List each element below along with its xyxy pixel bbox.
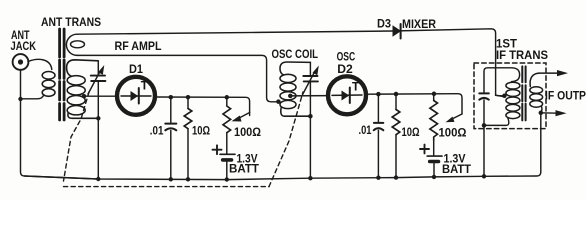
svg-text:D2: D2 (337, 62, 353, 76)
svg-text:.01: .01 (359, 123, 372, 137)
svg-text:IF OUTP: IF OUTP (545, 89, 586, 103)
svg-text:100Ω: 100Ω (439, 126, 467, 140)
svg-text:100Ω: 100Ω (234, 125, 261, 139)
svg-text:BATT: BATT (442, 162, 472, 176)
svg-text:10Ω: 10Ω (192, 124, 210, 138)
svg-text:.01: .01 (150, 124, 164, 138)
svg-text:T: T (141, 79, 149, 93)
svg-text:D1: D1 (129, 62, 143, 76)
svg-text:JACK: JACK (11, 39, 37, 53)
svg-text:IF TRANS: IF TRANS (496, 48, 548, 62)
svg-text:D3: D3 (377, 17, 391, 31)
svg-text:10Ω: 10Ω (402, 125, 420, 139)
svg-text:BATT: BATT (229, 162, 260, 176)
svg-text:MIXER: MIXER (402, 17, 436, 31)
svg-text:RF AMPL: RF AMPL (115, 39, 162, 53)
svg-text:T: T (352, 80, 360, 94)
svg-text:ANT TRANS: ANT TRANS (41, 15, 101, 29)
svg-text:OSC COIL: OSC COIL (272, 47, 319, 61)
